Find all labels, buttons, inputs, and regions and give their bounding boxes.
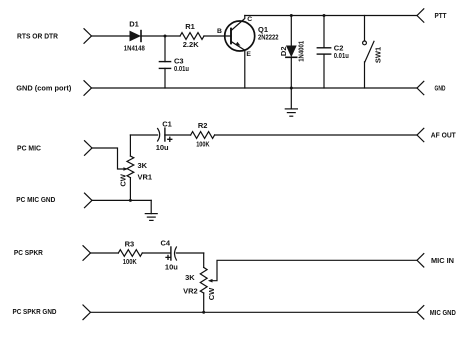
wire PC MIC to VR1 wiper xyxy=(92,148,124,169)
svg-text:1N4148: 1N4148 xyxy=(124,44,145,53)
wire D1 cathode to R1 xyxy=(141,35,180,37)
wire rail to ground xyxy=(150,200,152,213)
junction node D2 top xyxy=(290,14,293,17)
VR1 wiper arrow xyxy=(123,167,128,171)
port MIC IN xyxy=(417,254,454,267)
svg-text:PC MIC GND: PC MIC GND xyxy=(16,195,56,204)
svg-text:10u: 10u xyxy=(165,262,178,271)
port GND right xyxy=(417,81,446,94)
potentiometer VR1 3K xyxy=(119,135,152,200)
port GND (com port) xyxy=(16,81,91,96)
svg-text:AF OUT: AF OUT xyxy=(431,131,456,140)
svg-text:C4: C4 xyxy=(161,238,171,247)
svg-text:D2: D2 xyxy=(279,47,288,57)
svg-text:D1: D1 xyxy=(129,20,139,29)
port PC SPKR GND xyxy=(13,305,91,320)
svg-text:PTT: PTT xyxy=(435,11,447,20)
transistor Q1 2N2222 xyxy=(225,16,279,89)
capacitor C4 10u xyxy=(161,238,179,271)
svg-text:2.2K: 2.2K xyxy=(183,40,199,49)
wire R3 to C4 xyxy=(142,252,171,254)
resistor R2 100K xyxy=(191,121,215,149)
switch SW1 xyxy=(363,16,383,89)
wire R2 to AF OUT xyxy=(215,134,417,136)
svg-text:0.01u: 0.01u xyxy=(334,51,349,60)
svg-text:SW1: SW1 xyxy=(373,47,382,63)
ground symbol PC MIC GND xyxy=(145,214,157,221)
wire C1 to R2 xyxy=(165,134,191,136)
svg-text:R3: R3 xyxy=(125,239,135,248)
wire VR1 top to C1 xyxy=(130,134,157,136)
svg-text:VR1: VR1 xyxy=(138,172,153,181)
port PC SPKR xyxy=(14,246,91,261)
port PC MIC xyxy=(17,141,92,156)
svg-text:3K: 3K xyxy=(185,273,195,282)
port PC MIC GND xyxy=(16,193,92,208)
junction node D2 bottom / GND rail xyxy=(290,87,293,90)
junction node C2 top xyxy=(323,14,326,17)
svg-text:VR2: VR2 xyxy=(183,286,198,295)
wire PC SPKR to R3 xyxy=(91,252,119,254)
port RTS OR DTR xyxy=(17,29,92,44)
svg-text:C1: C1 xyxy=(162,119,172,128)
svg-text:100K: 100K xyxy=(196,140,210,149)
resistor R3 100K xyxy=(118,239,142,266)
capacitor C1 10u xyxy=(156,119,172,152)
wire PC SPKR GND rail xyxy=(91,311,418,313)
svg-text:GND (com port): GND (com port) xyxy=(16,84,71,93)
diode D2 1N4001 xyxy=(279,16,306,89)
svg-text:R2: R2 xyxy=(198,121,208,130)
ground symbol below D2 xyxy=(285,109,297,116)
VR2 wiper arrow xyxy=(208,279,213,283)
svg-text:R1: R1 xyxy=(185,22,195,31)
svg-text:MIC GND: MIC GND xyxy=(430,308,456,317)
capacitor C3 0.01u xyxy=(159,36,189,88)
wire GND rail xyxy=(92,87,418,89)
svg-text:PC SPKR GND: PC SPKR GND xyxy=(13,307,57,316)
svg-text:10u: 10u xyxy=(156,143,169,152)
wire RTS port to D1 anode xyxy=(92,35,130,37)
port AF OUT xyxy=(417,128,456,141)
svg-text:CW: CW xyxy=(119,173,128,186)
svg-text:3K: 3K xyxy=(138,161,148,170)
svg-text:1N4001: 1N4001 xyxy=(297,41,306,62)
potentiometer VR2 3K xyxy=(183,253,216,312)
port MIC GND xyxy=(417,306,456,319)
port PTT xyxy=(417,9,447,22)
svg-text:CW: CW xyxy=(207,287,216,300)
svg-text:100K: 100K xyxy=(123,257,137,266)
svg-text:MIC IN: MIC IN xyxy=(431,256,454,265)
wire VR2 wiper to MIC IN xyxy=(212,260,417,280)
capacitor C2 0.01u xyxy=(317,16,349,89)
wire PC MIC GND rail xyxy=(92,199,151,201)
svg-text:2N2222: 2N2222 xyxy=(258,33,279,42)
wire collector rail to PTT xyxy=(245,15,417,17)
wire C4 to VR2 top xyxy=(176,252,203,254)
junction node D1/R1/C3 xyxy=(164,35,167,38)
svg-text:0.01u: 0.01u xyxy=(174,64,189,73)
wire R1 to Q1 base xyxy=(204,35,231,37)
junction node VR2 bottom xyxy=(202,311,205,314)
diode D1 1N4148 xyxy=(124,20,145,53)
svg-text:PC MIC: PC MIC xyxy=(17,144,42,153)
wire D2 node to ground xyxy=(290,88,292,109)
junction node VR1 bottom xyxy=(129,199,132,202)
svg-text:GND: GND xyxy=(435,84,446,93)
svg-text:B: B xyxy=(217,28,222,35)
svg-text:E: E xyxy=(246,51,251,58)
resistor R1 2.2K xyxy=(180,22,204,49)
svg-text:RTS OR DTR: RTS OR DTR xyxy=(17,32,59,41)
svg-text:C: C xyxy=(247,16,252,23)
svg-text:PC SPKR: PC SPKR xyxy=(14,248,44,257)
